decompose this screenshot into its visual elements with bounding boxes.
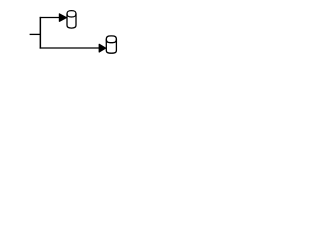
arrowhead 1 (59, 14, 66, 21)
wire to queue 1 (40, 17, 60, 19)
wire input stub (30, 33, 41, 35)
wire to queue 2 (40, 47, 100, 49)
cylinder Q2 (106, 36, 116, 53)
arrowhead 2 (99, 44, 105, 52)
wire vertical branch (39, 17, 41, 49)
cylinder Q1 (67, 11, 76, 29)
